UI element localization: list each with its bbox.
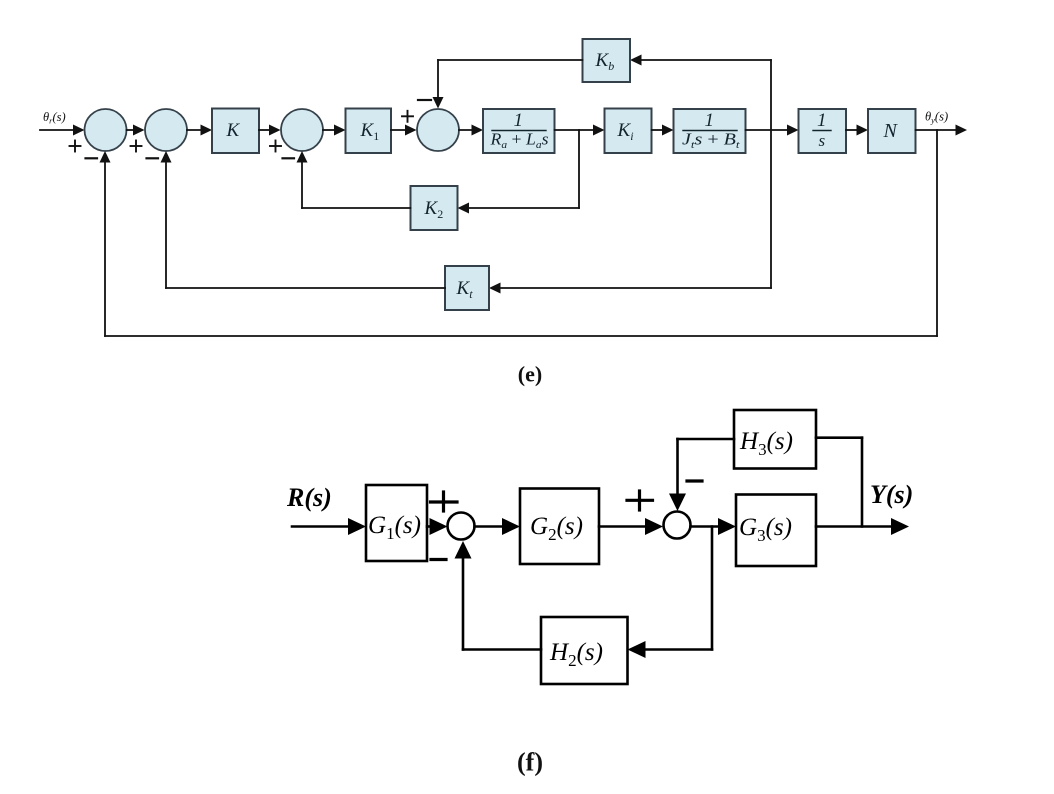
wire output with pickoff node P3 — [916, 129, 958, 131]
block G1 — [366, 485, 427, 561]
wire Kt feedback right segment — [499, 287, 772, 289]
block GRa 1/(Ra+La s) — [483, 109, 555, 153]
block N — [868, 109, 916, 153]
svg-text:Y(s): Y(s) — [870, 480, 913, 509]
wire H2 up into F1 — [462, 555, 465, 650]
wire H3 down into F2 — [676, 439, 679, 496]
wire K2 feedback up into S3 — [301, 161, 303, 209]
wire G3 output with pickoff node PF3 — [816, 525, 895, 528]
wire GJt to block integrator with pickoff node P2 — [746, 129, 790, 131]
block G2 — [520, 489, 599, 565]
svg-text:1: 1 — [817, 110, 827, 131]
wire outer feedback bottom segment — [105, 335, 937, 337]
wire input to summer S1 — [40, 129, 75, 131]
block GJt 1/(Jt s+Bt) — [674, 109, 746, 153]
F1 plus sign — [431, 492, 458, 511]
wire H2 left segment — [463, 648, 541, 651]
svg-text:1: 1 — [514, 110, 524, 131]
svg-text:s: s — [819, 131, 826, 150]
S3 minus sign — [283, 157, 295, 159]
wire K to S3 — [259, 129, 271, 131]
wire S1 to S2 — [127, 129, 136, 131]
wire F2 to G3 with pickoff node PF2 — [691, 525, 723, 528]
wire G2 to summer F2 — [599, 525, 649, 528]
F1 minus sign — [431, 558, 446, 561]
wire input to G1 — [292, 525, 352, 528]
block integrator 1/s — [799, 109, 847, 153]
wire H3 left segment — [678, 438, 735, 441]
svg-text:Jts + Bt: Jts + Bt — [682, 130, 741, 152]
S2 plus sign — [131, 141, 142, 152]
wire Kt feedback left segment — [166, 287, 445, 289]
wire Ki to block GJt — [652, 129, 665, 131]
svg-text:(f): (f) — [517, 748, 543, 777]
summing junction F1 — [448, 513, 475, 540]
svg-text:G2(s): G2(s) — [530, 513, 583, 544]
F2 plus sign — [627, 491, 653, 510]
wire Kb feedback pickoff vertical at x=771 — [770, 60, 772, 288]
F2 minus sign — [687, 479, 702, 482]
wire Kb feedback down into S4 — [437, 60, 439, 99]
svg-text:θr(s): θr(s) — [43, 110, 66, 126]
summing junction S1 — [85, 109, 127, 151]
S4 minus sign — [418, 99, 431, 101]
wire H3 feedback right riser from PF3 — [861, 438, 864, 527]
wire Kb feedback top right segment — [640, 59, 772, 61]
block H2 — [541, 617, 628, 684]
S4 plus sign — [402, 111, 413, 122]
wire K1 to S4 — [391, 129, 407, 131]
S1 plus sign — [70, 141, 81, 152]
svg-text:θy(s): θy(s) — [925, 110, 948, 126]
svg-text:(e): (e) — [518, 362, 542, 387]
wire H2 feedback right riser from PF2 — [711, 527, 714, 650]
block K1 — [346, 109, 392, 154]
summing junction S3 — [281, 109, 323, 151]
S2 minus sign — [147, 157, 159, 159]
wire integrator to block N — [846, 129, 859, 131]
summing junction F2 — [664, 512, 691, 539]
wire outer feedback up into S1 — [104, 161, 106, 337]
block K — [212, 109, 259, 154]
block Kt — [445, 266, 489, 310]
block H3 — [734, 410, 816, 469]
svg-text:H2(s): H2(s) — [549, 639, 603, 670]
wire G1 to summer F1 — [427, 525, 434, 528]
wire S4 to block GRa — [459, 129, 474, 131]
wire K2 feedback left segment — [302, 207, 411, 209]
wire outer feedback down from P3 — [936, 130, 938, 336]
wire Kb feedback top left segment — [438, 59, 583, 61]
wire H2 right segment — [642, 648, 713, 651]
svg-text:N: N — [883, 120, 899, 142]
svg-text:G1(s): G1(s) — [368, 512, 421, 543]
block K2 — [411, 186, 458, 230]
S3 plus sign — [270, 141, 281, 152]
svg-text:1: 1 — [705, 110, 715, 131]
svg-text:R(s): R(s) — [286, 483, 332, 512]
wire H3 right segment — [816, 436, 862, 439]
S1 minus sign — [86, 157, 98, 159]
summing junction S2 — [145, 109, 187, 151]
summing junction S4 — [417, 109, 459, 151]
svg-text:G3(s): G3(s) — [739, 514, 792, 545]
wire S2 to block K — [187, 129, 202, 131]
wire K2 feedback right segment — [467, 207, 579, 209]
wire K2 feedback pickoff vertical at x=579 — [578, 130, 580, 208]
svg-text:H3(s): H3(s) — [739, 428, 793, 459]
wire GRa to block Ki with pickoff node P1 — [555, 129, 596, 131]
wire F1 to G2 — [475, 525, 507, 528]
block G3 — [736, 495, 816, 567]
block Ki — [605, 109, 652, 154]
svg-text:K: K — [226, 120, 241, 141]
wire S3 to block K1 — [323, 129, 336, 131]
wire Kt feedback up into S2 — [165, 161, 167, 289]
block Kb — [583, 39, 631, 82]
